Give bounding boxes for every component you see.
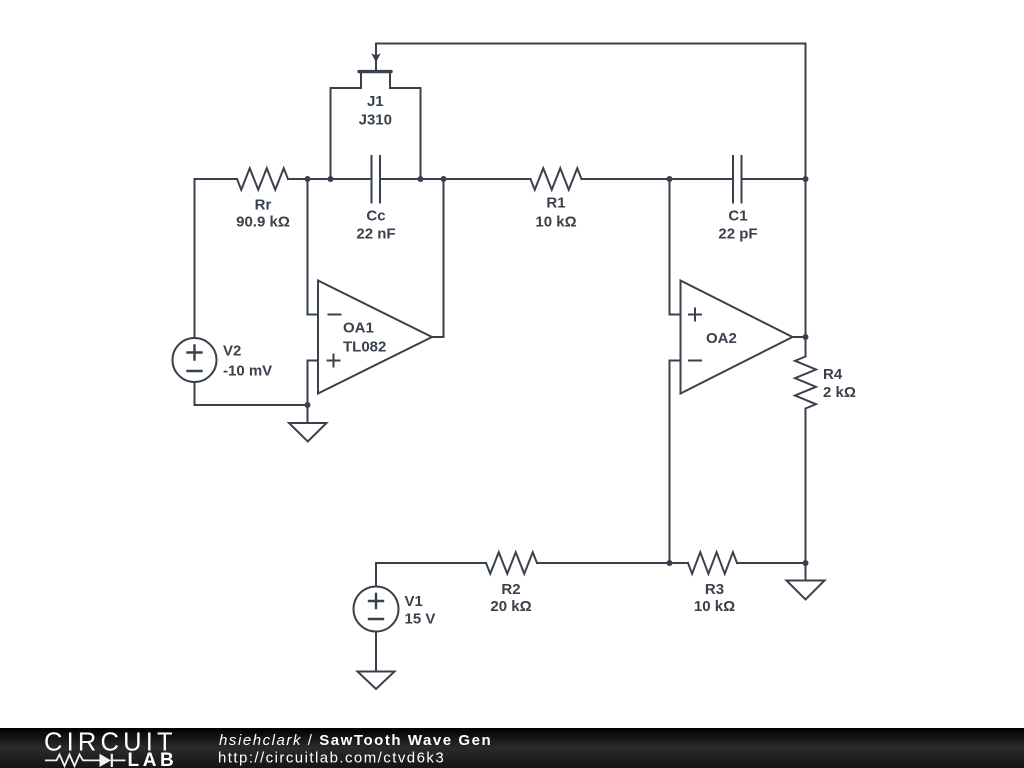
wire V2 bottom (195, 382, 308, 405)
node J1 left leg (328, 176, 334, 182)
svg-text:2 kΩ: 2 kΩ (823, 384, 856, 401)
wire OA1 inverting input branch (308, 179, 319, 315)
resistor R1 (531, 168, 582, 190)
wire OA2 output (793, 336, 806, 338)
svg-text:Cc: Cc (366, 208, 385, 225)
junction dots (305, 176, 809, 566)
node R2/R3 (667, 560, 673, 566)
wire Rr to Cc (288, 178, 371, 180)
svg-text:10 kΩ: 10 kΩ (535, 214, 576, 231)
wire right rail upper (805, 44, 807, 357)
svg-text:OA1: OA1 (343, 320, 374, 337)
svg-text:C1: C1 (728, 208, 747, 225)
wire bottom to R2 (376, 562, 486, 564)
svg-text:hsiehclark / SawTooth Wave Gen: hsiehclark / SawTooth Wave Gen (219, 732, 492, 749)
svg-text:J310: J310 (359, 111, 392, 128)
wire main left rail (194, 179, 196, 338)
transistor J1 (331, 53, 421, 179)
resistor Rr (237, 168, 288, 190)
wire OA2 inverting branch (669, 361, 671, 564)
svg-text:20 kΩ: 20 kΩ (490, 598, 531, 615)
svg-text:OA2: OA2 (706, 330, 737, 347)
svg-text:R1: R1 (546, 195, 565, 212)
node C1 right (803, 176, 809, 182)
voltage source V1 (354, 587, 399, 632)
node R3/R4/gnd (803, 560, 809, 566)
wire R3 to right rail (737, 562, 806, 564)
svg-text:Rr: Rr (255, 197, 272, 214)
svg-text:90.9 kΩ: 90.9 kΩ (236, 214, 290, 231)
node OA2 out (803, 334, 809, 340)
svg-text:10 kΩ: 10 kΩ (694, 598, 735, 615)
svg-text:V1: V1 (405, 593, 423, 610)
op-amp OA2 (681, 281, 793, 394)
resistor R4 (795, 357, 816, 409)
ground at OA1 plus node (289, 405, 327, 442)
resistor R3 (688, 552, 737, 574)
svg-text:LAB: LAB (128, 750, 178, 768)
wire OA1 non-inverting input branch (308, 361, 319, 406)
wire V1 top (375, 563, 377, 587)
wire C1 to right rail (743, 178, 806, 180)
svg-text:15 V: 15 V (405, 611, 436, 628)
svg-text:R2: R2 (501, 581, 520, 598)
capacitor Cc (372, 156, 381, 203)
svg-text:J1: J1 (367, 93, 384, 110)
svg-text:R3: R3 (705, 581, 724, 598)
footer bar (0, 728, 1024, 768)
ground at right rail bottom (787, 563, 825, 600)
op-amp OA1 (318, 281, 432, 394)
svg-text:-10 mV: -10 mV (223, 363, 272, 380)
wire OA1 output feedback (432, 179, 444, 337)
wire Cc to R1 (382, 178, 531, 180)
wire top feedback from gate to right rail (376, 43, 806, 45)
ground below V1 (358, 632, 395, 690)
svg-text:V2: V2 (223, 343, 241, 360)
node OA1 out (441, 176, 447, 182)
wire right rail lower (805, 409, 807, 564)
capacitor C1 (733, 156, 742, 203)
node J1 right leg (418, 176, 424, 182)
wire OA2 non-inverting branch (670, 179, 681, 315)
resistor R2 (486, 552, 537, 574)
svg-text:R4: R4 (823, 366, 843, 383)
svg-text:http://circuitlab.com/ctvd6k3: http://circuitlab.com/ctvd6k3 (218, 750, 445, 767)
svg-text:22 nF: 22 nF (356, 226, 395, 243)
node R1/C1/OA2+ (667, 176, 673, 182)
voltage source V2 (173, 338, 217, 382)
wire R1 to C1 (582, 178, 733, 180)
wire R2 to R3 (537, 562, 688, 564)
wire Rr left lead (195, 178, 238, 180)
svg-text:22 pF: 22 pF (718, 225, 757, 242)
node V2/gnd (305, 402, 311, 408)
wire gate drop (375, 44, 377, 71)
node Rr/OA1- (305, 176, 311, 182)
svg-text:TL082: TL082 (343, 339, 386, 356)
logo resistor-diode glyph (45, 754, 126, 767)
